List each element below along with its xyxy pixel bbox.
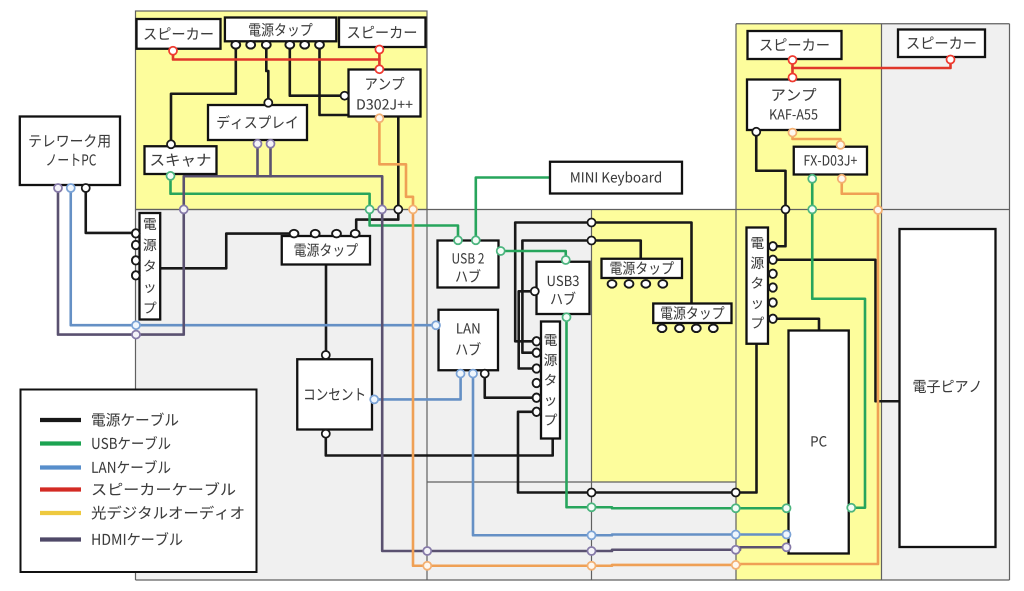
label: amp KAF line1 — [772, 88, 816, 101]
node: USB3 hub top input — [562, 256, 570, 264]
node: LAN hub power terminal — [481, 370, 489, 378]
socket 5 of middle vertical power strip — [533, 394, 541, 402]
node: far-right speaker terminal — [947, 56, 955, 64]
socket 2 of left vertical power strip — [132, 241, 140, 249]
label: display — [217, 115, 297, 129]
node: amp D302J++ power terminal — [341, 92, 349, 100]
node: HDMI border junction B — [180, 205, 188, 213]
socket 1 of middle yellow strip 2 — [658, 325, 667, 333]
node: LAN hub bottom output 2 — [469, 370, 477, 378]
socket 3 of right vertical power strip — [769, 270, 777, 278]
label: USB3 line2 — [551, 292, 576, 305]
wire: power cable right strip socket2 to electronic piano — [774, 260, 900, 402]
device box: LAN hub — [439, 310, 499, 371]
room region: top-left yellow (speaker/amp desk area) — [136, 11, 428, 210]
device box: electronic piano — [900, 229, 996, 547]
wire: speaker cable left speaker to amp D302J++ junction — [173, 51, 379, 60]
socket 2 of middle yellow strip 2 — [675, 325, 684, 333]
legend text: HDMIケーブル — [92, 532, 182, 545]
device box: power strip (middle yellow room 2) — [653, 304, 731, 324]
wire: speaker cable far-right speaker to amp KAF-A55 junction — [793, 60, 951, 69]
wire: optical digital audio amp KAF-A55 to FX-D03J+ — [793, 134, 841, 146]
socket 3 of gray-room power strip — [332, 230, 341, 238]
legend line: USB cable — [40, 441, 81, 445]
node: optical border junction E — [874, 206, 882, 214]
socket 4 of gray-room power strip — [351, 230, 360, 238]
device box: power strip (left gray room, vertical) — [140, 213, 161, 320]
label: power strip yellow 1 — [610, 261, 673, 275]
node: HDMI border junction E — [732, 546, 740, 554]
device box: power strip (middle yellow room 1) — [602, 259, 683, 278]
device box: USB 2 hub — [438, 241, 499, 288]
node: power cable border junction D — [588, 237, 596, 245]
wire: HDMI stub display left connector — [256, 147, 259, 177]
node: USB border junction B — [588, 503, 596, 511]
node: PC right USB terminal — [847, 504, 855, 512]
node: USB border junction A — [366, 205, 374, 213]
device box: speaker (far right) — [898, 30, 985, 58]
node: wall outlet bottom terminal — [322, 430, 330, 438]
device box: speaker (top-left room, right) — [339, 18, 426, 48]
legend line: HDMI cable — [40, 537, 81, 541]
label: LAN hub line1 — [457, 323, 479, 333]
legend text: USBケーブル — [92, 436, 170, 449]
node: HDMI border junction B2 — [378, 205, 386, 213]
device box: wall outlet (konsento) — [297, 359, 372, 429]
device box: speaker (right room) — [748, 31, 842, 59]
socket 2 of yellow-room top power strip — [246, 41, 255, 49]
device box: display — [208, 105, 307, 140]
node: FX-D03J+ USB terminal — [808, 175, 816, 183]
label: LAN hub line2 — [456, 342, 481, 355]
room region: right yellow room — [736, 24, 882, 580]
label: amp KAF line2 — [770, 109, 817, 119]
label: scanner — [151, 154, 210, 167]
device box: USB3 hub — [537, 262, 590, 314]
wire: power cable USB3 hub to middle strip socket3 — [519, 291, 537, 368]
legend text: スピーカーケーブル — [93, 482, 236, 495]
label: middle vertical power strip — [544, 334, 557, 426]
node: notebook PC power terminal — [82, 184, 90, 192]
wire: USB cable scanner to USB2 hub — [171, 176, 459, 240]
node: wall outlet top terminal — [322, 351, 330, 359]
wire: optical digital audio amp D302J++ to FX-D03J+ — [379, 119, 878, 566]
node: USB3 hub bottom output — [563, 313, 571, 321]
wire: power cable strip socket1 to scanner — [171, 47, 236, 143]
node: LAN hub left input — [432, 321, 440, 329]
socket 6 of middle vertical power strip — [533, 408, 541, 416]
node: notebook PC LAN terminal — [67, 184, 75, 192]
device box: MINI Keyboard — [550, 162, 682, 194]
node: USB3 hub power terminal — [531, 287, 539, 295]
wire: power cable gray strip bottom to wall outlet top — [325, 265, 328, 353]
socket 5 of right vertical power strip — [769, 298, 777, 306]
node: amp D302J++ optical output — [375, 114, 383, 122]
room border: horizontal y=482 — [427, 481, 736, 483]
room border: horizontal y=580 — [136, 579, 1010, 581]
node: scanner USB terminal — [167, 172, 175, 180]
room region: middle lower gray room — [592, 482, 737, 580]
label: power strip gray room — [295, 243, 358, 257]
wire: HDMI stub display right connector to PC run — [269, 147, 272, 177]
node: USB border junction C — [732, 504, 740, 512]
node: LAN border junction A — [132, 321, 140, 329]
wire: power cable middle strip socket1 to yellow-room strip 2 — [515, 223, 691, 342]
device box: power strip (middle, vertical) — [541, 322, 560, 439]
wire: USB cable USB3 hub to PC — [567, 318, 786, 508]
wire: power cable amp KAF-A55 to right strip socket1 — [756, 132, 785, 246]
node: amp KAF-A55 power terminal — [752, 128, 760, 136]
socket 1 of gray-room power strip — [290, 230, 299, 238]
node: PC HDMI terminal — [783, 543, 791, 551]
wire: USB cable USB2 hub to USB3 hub — [502, 251, 566, 260]
device box: power strip (gray room horizontal) — [282, 236, 370, 265]
node: amp KAF-A55 speaker input — [789, 74, 797, 82]
socket 4 of left vertical power strip — [132, 271, 140, 279]
room region: center gray room — [427, 210, 592, 581]
label: MINI Keyboard — [571, 171, 661, 185]
label: speaker right room — [760, 38, 828, 51]
wire: power cable LAN hub to middle strip socket5 — [485, 375, 537, 398]
socket 1 of middle vertical power strip — [533, 337, 541, 345]
device box: FX-D03J+ — [794, 147, 867, 175]
node: notebook PC HDMI terminal — [54, 184, 62, 192]
wire: HDMI cable notebook PC to display — [58, 176, 785, 551]
node: amp KAF-A55 optical output — [789, 129, 797, 137]
label: speaker top-left — [144, 27, 212, 40]
socket 1 of left vertical power strip — [132, 229, 140, 237]
device box: power strip (yellow room top) — [225, 18, 336, 42]
room region: middle yellow room — [592, 210, 737, 483]
label: teleworking notebook line1 — [29, 134, 109, 147]
node: scanner power terminal — [167, 140, 175, 148]
socket 4 of yellow-room top power strip — [285, 41, 294, 49]
wire: power cable middle strip socket2 to yellow-room strip 1 — [522, 241, 640, 353]
node: PC LAN terminal — [783, 531, 791, 539]
socket 2 of middle yellow strip 1 — [625, 280, 634, 288]
socket 4 of middle vertical power strip — [533, 379, 541, 387]
wire: power cable left power strip input to gray-room strip socket1 — [161, 234, 293, 269]
label: electronic piano — [914, 380, 980, 393]
label: USB3 line1 — [548, 276, 579, 287]
legend text: 電源ケーブル — [92, 413, 178, 427]
room border: vertical x=591.5 — [591, 210, 593, 581]
room border: vertical x=427 — [426, 210, 428, 581]
label: PC — [811, 436, 826, 447]
node: display power terminal — [264, 99, 272, 107]
node: right-room speaker terminal — [789, 56, 797, 64]
wire: LAN cable notebook PC to LAN hub — [71, 186, 435, 325]
socket 2 of gray-room power strip — [311, 230, 320, 238]
label: teleworking notebook line2 — [47, 154, 96, 166]
node: display HDMI terminal 1 — [254, 140, 262, 148]
label: amp D302J++ line2 — [357, 99, 412, 110]
device box: PC — [789, 331, 849, 554]
node: power cable border junction C — [588, 219, 596, 227]
label: wall outlet — [305, 388, 364, 400]
socket 3 of yellow-room top power strip — [262, 41, 271, 49]
wire: speaker cable speaker to amp KAF-A55 top — [791, 60, 794, 78]
socket 4 of middle yellow strip 2 — [709, 325, 718, 333]
node: optical border junction B — [423, 562, 431, 570]
node: wall outlet LAN terminal — [370, 395, 378, 403]
legend line: power cable — [40, 418, 81, 422]
socket 3 of middle yellow strip 1 — [641, 280, 650, 288]
label: speaker far right — [907, 36, 975, 49]
legend line: optical digital audio — [40, 511, 81, 515]
wire: speaker cable right speaker to amp D302J++ top — [378, 50, 381, 69]
wire: USB cable MINI Keyboard to USB2 hub — [476, 178, 549, 240]
legend line: LAN cable — [40, 465, 81, 469]
node: USB border junction D — [808, 205, 816, 213]
label: power strip yellow 2 — [661, 306, 724, 320]
label: USB2 line2 — [456, 269, 481, 282]
node: HDMI border junction A — [132, 331, 140, 339]
socket 2 of right vertical power strip — [769, 256, 777, 264]
socket 6 of right vertical power strip — [769, 315, 777, 323]
label: FX-D03J+ — [805, 155, 857, 166]
socket 4 of middle yellow strip 1 — [658, 280, 667, 288]
room border: vertical x=736 — [735, 24, 737, 580]
device box: speaker (top-left) — [137, 19, 221, 49]
socket 4 of right vertical power strip — [769, 283, 777, 291]
label: speaker top-right — [348, 26, 416, 39]
wire: power cable strip socket3 to display — [266, 47, 268, 102]
node: optical border junction C — [588, 562, 596, 570]
device box: power strip (right room, vertical) — [747, 228, 769, 344]
legend text: 光デジタルオーディオ — [92, 506, 244, 520]
socket 1 of right vertical power strip — [769, 242, 777, 250]
legend line: speaker cable — [40, 487, 81, 491]
device box: amp D302J++ — [349, 70, 421, 117]
node: display HDMI terminal 2 — [267, 140, 275, 148]
label: amp D302J++ line1 — [366, 77, 404, 90]
node: LAN border junction C — [732, 531, 740, 539]
socket 1 of yellow-room top power strip — [231, 41, 240, 49]
socket 1 of middle yellow strip 1 — [608, 280, 617, 288]
wire: LAN cable LAN hub to wall outlet (PLC) — [376, 375, 460, 399]
node: LAN border junction B — [588, 531, 596, 539]
device box: teleworking notebook PC — [20, 117, 120, 186]
room border: vertical x=135.5 — [135, 210, 137, 581]
room border: horizontal y=23.75 — [736, 23, 1010, 25]
device box: amp KAF-A55 — [747, 80, 840, 131]
node: amp D302J++ speaker input — [375, 65, 383, 73]
label: USB2 line1 — [453, 253, 484, 264]
node: optical border junction D — [732, 561, 740, 569]
node: LAN hub bottom output 1 — [457, 370, 465, 378]
socket 6 of yellow-room top power strip — [315, 41, 324, 49]
node: power cable border junction E — [588, 489, 596, 497]
label: right vertical power strip — [751, 237, 764, 329]
room border: vertical x=1009.5 — [1009, 24, 1011, 580]
legend text: LANケーブル — [92, 460, 170, 473]
node: PC left USB terminal — [783, 504, 791, 512]
label: left vertical power strip — [143, 218, 156, 314]
wire: power cable middle strip socket6 to right room power strip input — [518, 344, 757, 493]
socket 2 of middle vertical power strip — [533, 349, 541, 357]
node: FX-D03J+ optical input top — [837, 141, 845, 149]
node: USB2 hub input 1 — [454, 236, 462, 244]
wire: power cable wall outlet bottom to middle power strip input — [326, 436, 553, 456]
label: power strip top — [249, 23, 312, 37]
wire: power cable yellow-room strip socket6 down to gray-room strip socket4 — [320, 47, 399, 232]
socket 3 of middle vertical power strip — [533, 364, 541, 372]
wire: LAN cable LAN hub to PC — [473, 375, 785, 535]
room border: vertical x=881.5 — [881, 24, 883, 580]
room border: top-left yellow outline — [136, 11, 428, 210]
node: power cable border junction F — [732, 489, 740, 497]
node: power cable room-border junction B — [782, 205, 790, 213]
legend box — [21, 390, 257, 573]
node: HDMI border junction D — [588, 547, 596, 555]
room region: left gray room — [136, 210, 428, 581]
node: HDMI border junction C — [423, 547, 431, 555]
node: power cable room-border junction A — [394, 205, 402, 213]
node: USB2 hub right output — [497, 247, 505, 255]
node: left speaker terminal — [169, 47, 177, 55]
node: USB2 hub input 2 — [472, 236, 480, 244]
room border: horizontal y=209.5 — [136, 209, 1010, 211]
device box: scanner — [145, 146, 217, 174]
node: optical border junction A — [409, 205, 417, 213]
socket 3 of left vertical power strip — [132, 256, 140, 264]
wire: USB cable FX-D03J+ to PC — [812, 180, 865, 508]
wire: power cable strip socket4 to amp D302J++ — [290, 47, 343, 96]
node: right speaker terminal — [375, 46, 383, 54]
wire: power cable right strip socket6 to PC — [774, 319, 819, 331]
socket 3 of middle yellow strip 2 — [692, 325, 701, 333]
node: FX-D03J+ optical input bottom — [838, 175, 846, 183]
socket 5 of yellow-room top power strip — [300, 41, 309, 49]
room region: far-right gray room — [882, 24, 1010, 580]
wire: power cable notebook PC to left power strip — [86, 186, 134, 233]
